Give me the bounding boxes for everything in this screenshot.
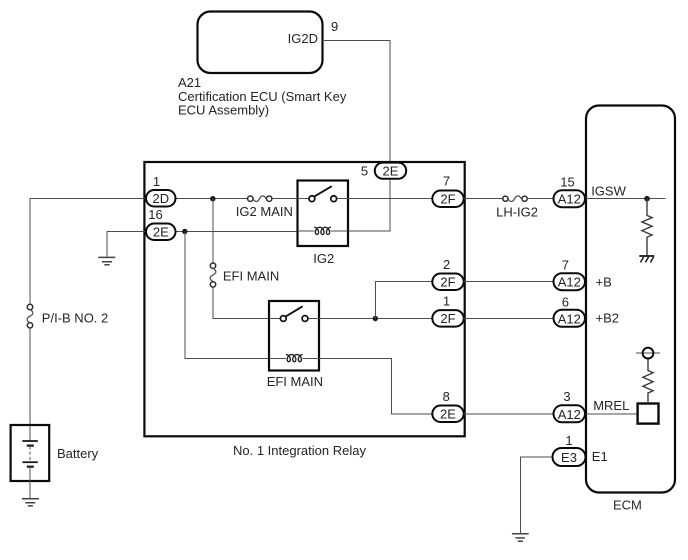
connector 2F pin 1: [432, 310, 463, 327]
svg-text:Battery: Battery: [57, 446, 99, 461]
chassis ground (IGSW): [639, 255, 654, 257]
wire IGSW row inside ECM: [586, 198, 666, 200]
svg-text:IGSW: IGSW: [591, 184, 626, 199]
wire 2F(1) to A12(6): [464, 318, 554, 320]
svg-text:2F: 2F: [440, 192, 455, 207]
wire EFI coil to 2E(8): [319, 359, 432, 414]
wire 2E row to IG2 coil: [176, 231, 298, 233]
fuse IG2 MAIN: [248, 196, 253, 201]
junction dot 2F branch: [373, 316, 378, 321]
wire E3 to ground: [520, 457, 553, 533]
wire 2F(2) to A12(7): [464, 281, 554, 283]
svg-text:IG2: IG2: [313, 251, 334, 266]
relay coil load box (MREL): [638, 404, 659, 424]
svg-text:LH-IG2: LH-IG2: [496, 205, 538, 220]
ground (E1/E3): [512, 534, 529, 541]
connector A12 pin 7: [554, 273, 586, 290]
svg-text:IG2D: IG2D: [288, 31, 318, 46]
svg-text:No. 1 Integration Relay: No. 1 Integration Relay: [233, 443, 366, 458]
EFI MAIN switch: [269, 318, 319, 320]
wire IG2 switch to 2F(7): [348, 198, 432, 200]
wire 2E to ground: [107, 232, 146, 257]
svg-text:2D: 2D: [152, 191, 169, 206]
svg-text:A21: A21: [178, 75, 201, 90]
svg-text:A12: A12: [558, 275, 581, 290]
svg-text:1: 1: [565, 433, 572, 448]
connector 2D pin 1: [146, 190, 176, 207]
svg-text:MREL: MREL: [593, 398, 629, 413]
wire 2D row to IG2 MAIN fuse: [176, 198, 248, 200]
connector 2E pin 8: [432, 406, 463, 423]
svg-text:EFI MAIN: EFI MAIN: [267, 374, 323, 389]
wire 2D to battery feed: [30, 199, 146, 305]
wire junction down to EFI MAIN fuse: [212, 199, 214, 263]
svg-text:7: 7: [443, 174, 450, 189]
wire battery to ground: [29, 467, 31, 498]
svg-text:+B: +B: [596, 275, 612, 290]
fuse LH-IG2: [503, 196, 508, 201]
svg-text:6: 6: [562, 295, 569, 310]
wire 2F(7) to LH-IG2 fuse: [464, 198, 503, 200]
junction dot 2D row: [210, 196, 215, 201]
wire fuse to battery: [29, 328, 31, 441]
svg-text:1: 1: [153, 174, 160, 189]
wire 2E junction down to EFI coil: [185, 232, 269, 359]
svg-text:EFI MAIN: EFI MAIN: [223, 269, 279, 284]
ground (battery): [22, 499, 39, 506]
svg-text:3: 3: [563, 389, 570, 404]
svg-text:E3: E3: [561, 450, 577, 465]
wire LH-IG2 fuse to A12(15): [527, 198, 553, 200]
svg-text:2F: 2F: [440, 275, 455, 290]
connector 2F pin 7: [432, 191, 463, 208]
fuse P/I-B NO. 2: [27, 304, 32, 309]
junction dot IGSW: [644, 196, 650, 202]
svg-text:2E: 2E: [440, 407, 456, 422]
connector A12 pin 6: [554, 310, 586, 327]
svg-text:P/I-B NO. 2: P/I-B NO. 2: [42, 311, 108, 326]
IG2 coil: [298, 230, 315, 232]
connector 2E pin 16: [146, 224, 176, 241]
connector 2E pin 5: [375, 163, 406, 179]
svg-text:A12: A12: [558, 192, 581, 207]
wire EFI switch to 2F(1): [319, 318, 432, 320]
B+ terminal line: [636, 352, 660, 354]
svg-text:1: 1: [443, 294, 450, 309]
B+ terminal circle: [643, 348, 654, 359]
connector A12 pin 3: [554, 405, 586, 422]
svg-text:ECM: ECM: [613, 498, 642, 513]
ECM box: [586, 106, 675, 493]
svg-text:5: 5: [361, 164, 368, 179]
wire EFI MAIN fuse to EFI relay switch: [213, 287, 269, 318]
relay IG2 box: [298, 181, 349, 247]
svg-text:2F: 2F: [440, 311, 455, 326]
wire IG2D pin9 to relay 2E(5) and IG2 coil: [323, 41, 391, 231]
svg-text:+B2: +B2: [596, 311, 620, 326]
wire MREL row inside ECM: [586, 413, 638, 415]
svg-text:2E: 2E: [383, 163, 399, 178]
fuse EFI MAIN: [210, 263, 215, 268]
wire IG2 MAIN fuse to IG2 relay: [272, 198, 298, 200]
battery cell plates: [22, 440, 37, 442]
svg-text:9: 9: [331, 19, 338, 34]
battery box: [11, 425, 50, 481]
junction dot 2E row: [182, 229, 187, 234]
svg-text:E1: E1: [592, 449, 608, 464]
connector E3 pin 1: [553, 448, 586, 466]
svg-text:15: 15: [560, 175, 574, 190]
svg-text:16: 16: [148, 207, 162, 222]
svg-text:8: 8: [443, 389, 450, 404]
svg-text:A12: A12: [558, 407, 581, 422]
IG2 switch: [298, 198, 349, 200]
wire 2E(8) to A12(3): [464, 413, 554, 415]
wire branch up to 2F(2): [375, 282, 432, 319]
svg-text:7: 7: [562, 258, 569, 273]
ground (relay 2E): [98, 257, 115, 264]
relay EFI MAIN box: [269, 301, 319, 371]
connector 2F pin 2: [432, 274, 463, 291]
svg-text:IG2 MAIN: IG2 MAIN: [236, 204, 293, 219]
ECU A21 box (Certification ECU): [198, 12, 323, 74]
relay box No.1 Integration Relay: [144, 162, 464, 436]
svg-text:ECU Assembly): ECU Assembly): [178, 103, 269, 118]
resistor (MREL): [643, 359, 653, 404]
svg-text:A12: A12: [558, 311, 581, 326]
EFI MAIN coil: [269, 357, 286, 359]
svg-text:2: 2: [443, 257, 450, 272]
resistor (IGSW pull): [642, 199, 652, 256]
connector A12 pin 15: [554, 190, 586, 207]
svg-text:2E: 2E: [153, 225, 169, 240]
